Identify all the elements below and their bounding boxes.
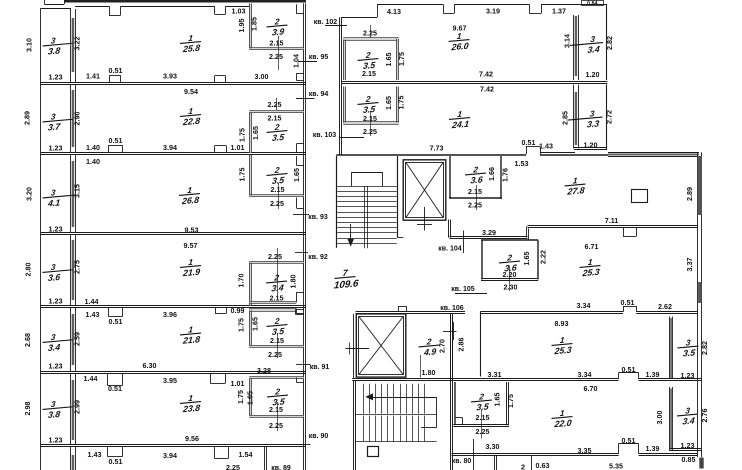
svg-text:23.8: 23.8 bbox=[182, 403, 201, 415]
svg-text:2.80: 2.80 bbox=[25, 263, 33, 277]
svg-text:7.42: 7.42 bbox=[480, 86, 494, 94]
svg-text:кв. 105: кв. 105 bbox=[451, 286, 474, 293]
svg-text:1.39: 1.39 bbox=[646, 371, 660, 379]
door notch R1-top x215 bbox=[214, 6, 216, 14]
svg-text:25.3: 25.3 bbox=[581, 267, 600, 279]
balcony-room window wall row6 bbox=[70, 374, 72, 446]
balcony top wall row1 bbox=[41, 8, 71, 10]
stair2 column bbox=[368, 447, 379, 457]
balcony-room window wall row4 bbox=[70, 235, 72, 307]
door recess kv95 bbox=[297, 73, 304, 75]
svg-text:1.23: 1.23 bbox=[49, 297, 63, 305]
bathroom 2/3.5 R5 box bbox=[249, 309, 251, 347]
wall elevator1 to 25.3 area bbox=[448, 220, 450, 238]
svg-text:2.25: 2.25 bbox=[268, 351, 282, 359]
door notch R2 x108 bbox=[108, 145, 110, 153]
svg-text:2.25: 2.25 bbox=[268, 253, 282, 261]
bath 2/3.6 kv105 labels bbox=[498, 253, 521, 274]
svg-text:1.65: 1.65 bbox=[247, 391, 255, 405]
svg-text:2.25: 2.25 bbox=[268, 101, 282, 109]
witness B2 bbox=[276, 98, 278, 110]
door recess kv91 bbox=[296, 309, 304, 311]
kv92 leader bbox=[295, 252, 308, 254]
door notch R5 x108 bbox=[108, 308, 110, 317]
svg-text:0.51: 0.51 bbox=[109, 137, 123, 145]
balcony-room window wall row3 bbox=[70, 155, 72, 233]
svg-text:2: 2 bbox=[521, 464, 525, 470]
dark wall fill right mid bbox=[698, 282, 702, 303]
row wall R5/R6 bbox=[41, 371, 306, 373]
svg-text:0.51: 0.51 bbox=[109, 67, 123, 75]
bath kv80 labels bbox=[470, 392, 493, 413]
right balcony 3.3 bottom wall bbox=[574, 147, 607, 149]
witness bath105 bbox=[509, 266, 511, 291]
door notch R7 x214 bbox=[214, 446, 216, 459]
svg-text:3.5: 3.5 bbox=[682, 347, 696, 358]
svg-text:0.51: 0.51 bbox=[522, 139, 536, 147]
svg-text:1.75: 1.75 bbox=[398, 52, 406, 66]
balcony 3.5 right label bbox=[677, 338, 700, 359]
svg-text:1.70: 1.70 bbox=[238, 274, 246, 288]
witness bath104 bbox=[476, 185, 478, 210]
svg-text:кв. 106: кв. 106 bbox=[440, 305, 463, 312]
door notch R7 x107 bbox=[107, 446, 109, 457]
dim box 0.84 bbox=[582, 1, 604, 6]
svg-text:1.65: 1.65 bbox=[385, 53, 393, 67]
svg-text:1.23: 1.23 bbox=[49, 144, 63, 152]
svg-text:26.8: 26.8 bbox=[181, 195, 200, 207]
door notch R1 x215 bbox=[214, 76, 216, 83]
corridor label 7/109.6 bbox=[331, 267, 360, 292]
svg-text:3.9: 3.9 bbox=[271, 26, 284, 37]
svg-text:1.80: 1.80 bbox=[422, 369, 436, 377]
svg-text:2.15: 2.15 bbox=[363, 115, 377, 123]
kv93 leader bbox=[293, 214, 309, 216]
svg-text:2.72: 2.72 bbox=[606, 110, 614, 124]
witness BR2 bbox=[370, 111, 372, 136]
right block row wall 26.0/24.1 bbox=[342, 81, 608, 83]
svg-text:2.15: 2.15 bbox=[270, 337, 284, 345]
room labels left block bbox=[179, 33, 202, 54]
svg-text:1.23: 1.23 bbox=[49, 73, 63, 81]
svg-text:кв. 94: кв. 94 bbox=[309, 91, 329, 98]
svg-text:2.89: 2.89 bbox=[24, 111, 32, 125]
svg-text:1.20: 1.20 bbox=[584, 142, 598, 150]
bathroom 2/3.5 R6 box bbox=[249, 378, 251, 417]
svg-text:3.94: 3.94 bbox=[163, 452, 177, 460]
right windows wall x576 bbox=[573, 15, 575, 80]
door notch 25.3-1 top bbox=[623, 228, 625, 237]
witness B6 bbox=[277, 402, 279, 431]
svg-text:1.37: 1.37 bbox=[552, 8, 566, 16]
svg-text:0.85: 0.85 bbox=[682, 456, 696, 464]
room 22.0 bottom wall bbox=[452, 453, 619, 455]
room labels right top bbox=[448, 31, 471, 52]
svg-text:3.20: 3.20 bbox=[26, 187, 34, 201]
svg-text:3.15: 3.15 bbox=[74, 184, 82, 198]
svg-text:2.68: 2.68 bbox=[24, 333, 32, 347]
svg-text:24.1: 24.1 bbox=[451, 119, 470, 131]
bathroom labels right top bbox=[357, 50, 380, 71]
svg-text:0.51: 0.51 bbox=[621, 299, 635, 307]
staircase 1 down arrow bbox=[350, 224, 352, 241]
staircase 2 left wall bbox=[353, 381, 355, 470]
balcony-room window wall row7 bbox=[70, 447, 72, 470]
top-left notch in thick wall bbox=[44, 0, 46, 4]
svg-text:1.40: 1.40 bbox=[86, 158, 100, 166]
svg-text:кв. 102: кв. 102 bbox=[314, 19, 337, 26]
svg-text:3.6: 3.6 bbox=[47, 272, 60, 283]
svg-text:7.42: 7.42 bbox=[479, 71, 493, 79]
wall below E2 / stair2 top bbox=[352, 378, 453, 380]
svg-text:1.03: 1.03 bbox=[232, 7, 246, 15]
room 27.8 bottom wall left part bbox=[450, 236, 528, 238]
svg-text:0.51: 0.51 bbox=[109, 458, 123, 466]
svg-text:2.15: 2.15 bbox=[476, 414, 490, 422]
svg-text:1.76: 1.76 bbox=[502, 168, 510, 182]
svg-text:7.73: 7.73 bbox=[430, 145, 444, 153]
svg-text:7.11: 7.11 bbox=[605, 217, 619, 225]
staircase 1 treads bbox=[337, 186, 397, 188]
svg-text:3.22: 3.22 bbox=[73, 37, 81, 51]
svg-text:0.51: 0.51 bbox=[108, 385, 122, 393]
svg-text:4.9: 4.9 bbox=[422, 346, 436, 357]
bathroom 2/3.5 R2 box bbox=[249, 112, 251, 153]
svg-text:1.20: 1.20 bbox=[586, 71, 600, 79]
svg-text:2.15: 2.15 bbox=[271, 186, 285, 194]
balcony-room window wall row1 bbox=[70, 9, 72, 83]
bath door notch kv80 bottom-left bbox=[455, 417, 463, 419]
svg-text:1.23: 1.23 bbox=[681, 442, 695, 450]
bath door notch R4 bottom-right bbox=[296, 292, 298, 302]
svg-text:27.8: 27.8 bbox=[566, 185, 585, 197]
bathroom 2/3.5 right-2 box bbox=[343, 87, 345, 124]
witness B1 bbox=[278, 36, 280, 70]
room 25.3-1 label bbox=[579, 257, 602, 278]
svg-text:1.01: 1.01 bbox=[231, 380, 245, 388]
room 25.3-2 bottom wall bbox=[453, 378, 618, 380]
right block top wall bbox=[377, 4, 443, 6]
svg-text:4.1: 4.1 bbox=[46, 197, 60, 208]
svg-text:0.51: 0.51 bbox=[622, 437, 636, 445]
svg-text:2.15: 2.15 bbox=[268, 115, 282, 123]
svg-text:0.51: 0.51 bbox=[109, 318, 123, 326]
svg-text:кв. 95: кв. 95 bbox=[309, 54, 329, 61]
svg-text:1.66: 1.66 bbox=[488, 167, 496, 181]
svg-text:6.30: 6.30 bbox=[143, 362, 157, 370]
wall stub below R7 notch bbox=[264, 446, 266, 470]
svg-text:1.39: 1.39 bbox=[646, 445, 660, 453]
svg-text:3.19: 3.19 bbox=[486, 8, 500, 16]
top notch x443 bbox=[443, 4, 445, 13]
kv90 leader bbox=[296, 444, 311, 446]
right balcony top bbox=[576, 4, 608, 6]
bathroom 2/3.5 kv80 box bbox=[454, 382, 456, 425]
svg-text:2.25: 2.25 bbox=[270, 200, 284, 208]
bath door notch R5 top-right bbox=[296, 309, 298, 314]
svg-text:1.75: 1.75 bbox=[239, 168, 247, 182]
svg-text:2.15: 2.15 bbox=[362, 70, 376, 78]
svg-text:1.54: 1.54 bbox=[239, 451, 253, 459]
svg-text:8.93: 8.93 bbox=[555, 320, 569, 328]
witness BR1 bbox=[370, 25, 372, 38]
svg-text:3.34: 3.34 bbox=[577, 302, 591, 310]
bathroom 2/3.9 R1 box bbox=[249, 4, 251, 50]
svg-text:2.62: 2.62 bbox=[658, 303, 672, 311]
svg-text:3.14: 3.14 bbox=[564, 34, 572, 48]
svg-text:25.3: 25.3 bbox=[553, 345, 572, 357]
svg-text:3.93: 3.93 bbox=[163, 73, 177, 81]
balcony-room window wall row5 bbox=[70, 308, 72, 372]
svg-text:2.82: 2.82 bbox=[606, 36, 614, 50]
svg-text:2.25: 2.25 bbox=[476, 428, 490, 436]
svg-text:кв. 89: кв. 89 bbox=[271, 465, 291, 470]
staircase 1 mid divider bbox=[364, 186, 366, 248]
room 22.0 label bbox=[551, 408, 574, 429]
svg-text:6.70: 6.70 bbox=[584, 385, 598, 393]
svg-text:1.75: 1.75 bbox=[507, 394, 515, 408]
svg-text:1.65: 1.65 bbox=[494, 393, 502, 407]
svg-text:3.10: 3.10 bbox=[26, 38, 34, 52]
kv94 leader bbox=[296, 98, 315, 100]
door notch R2 x214 bbox=[214, 146, 216, 153]
svg-text:1.44: 1.44 bbox=[85, 298, 99, 306]
corridor top wall bbox=[336, 154, 526, 156]
svg-text:1.65: 1.65 bbox=[293, 168, 301, 182]
svg-text:2.25: 2.25 bbox=[363, 30, 377, 38]
elevator shaft E1 bbox=[403, 160, 446, 220]
svg-text:1.53: 1.53 bbox=[515, 160, 529, 168]
svg-text:1.95: 1.95 bbox=[238, 19, 246, 33]
svg-text:6.71: 6.71 bbox=[585, 243, 599, 251]
svg-text:2.25: 2.25 bbox=[269, 422, 283, 430]
staircase 1 left wall bbox=[336, 156, 338, 248]
right block left wall bbox=[339, 17, 341, 155]
staircase 2 arrow bbox=[365, 393, 373, 400]
svg-text:21.9: 21.9 bbox=[182, 267, 201, 279]
balcony-room window wall row2 bbox=[70, 85, 72, 154]
svg-text:2.76: 2.76 bbox=[701, 409, 709, 423]
staircase 2 bottom line bbox=[356, 441, 437, 443]
svg-text:3.8: 3.8 bbox=[47, 409, 60, 420]
room 4.9 label bbox=[418, 337, 441, 358]
svg-text:2.15: 2.15 bbox=[270, 39, 284, 47]
balcony 3/3.4 bottom-right box bbox=[669, 387, 671, 451]
dark wall fill right bottom bbox=[699, 458, 703, 469]
bath 2/3.6 kv104 labels bbox=[464, 165, 487, 186]
door notch x618 up bbox=[618, 373, 620, 379]
svg-text:3.96: 3.96 bbox=[163, 311, 177, 319]
svg-text:3.4: 3.4 bbox=[682, 415, 695, 426]
svg-text:1.65: 1.65 bbox=[252, 126, 260, 140]
kv105 leader bbox=[455, 293, 487, 295]
svg-text:1.75: 1.75 bbox=[239, 128, 247, 142]
svg-text:1.75: 1.75 bbox=[398, 96, 406, 110]
svg-text:3.34: 3.34 bbox=[578, 371, 592, 379]
svg-text:1.40: 1.40 bbox=[86, 144, 100, 152]
room 27.8 bottom wall step bbox=[526, 226, 528, 237]
door notch 25.3-2 top x623 bbox=[623, 306, 625, 312]
svg-text:3.37: 3.37 bbox=[686, 258, 694, 272]
square column in 27.8 bbox=[632, 190, 648, 203]
room 27.8 bottom wall right part bbox=[528, 225, 698, 227]
corridor door notch x526 bbox=[526, 147, 528, 154]
svg-text:кв. 103: кв. 103 bbox=[313, 132, 336, 139]
staircase 2 right wall bbox=[450, 314, 452, 470]
svg-text:9.54: 9.54 bbox=[184, 88, 198, 96]
door notch R5 x215 bbox=[215, 308, 217, 314]
row wall R4/R5 bbox=[41, 305, 306, 307]
corridor strip wall x480 bbox=[480, 312, 482, 377]
svg-text:4.13: 4.13 bbox=[387, 8, 401, 16]
svg-text:2.90: 2.90 bbox=[74, 112, 82, 126]
svg-text:2.89: 2.89 bbox=[686, 187, 694, 201]
svg-text:109.6: 109.6 bbox=[333, 278, 359, 291]
witness line 2.25 kv80 bath bbox=[481, 410, 483, 439]
E2 center mark bbox=[346, 348, 370, 350]
room 25.3-2 label bbox=[551, 335, 574, 356]
svg-text:3.28: 3.28 bbox=[257, 367, 271, 375]
svg-text:3.31: 3.31 bbox=[488, 371, 502, 379]
bottom partial bath next row bbox=[494, 455, 532, 457]
corridor bottom wall y312-314 bbox=[356, 311, 466, 313]
svg-text:1.65: 1.65 bbox=[252, 317, 260, 331]
svg-text:1.01: 1.01 bbox=[231, 144, 245, 152]
door notch R6 x107 bbox=[107, 373, 109, 386]
kv95 leader bbox=[298, 61, 317, 63]
room 4.9 right wall bbox=[450, 315, 452, 380]
svg-text:26.0: 26.0 bbox=[450, 41, 469, 53]
kv91 leader bbox=[296, 364, 311, 366]
svg-text:1.23: 1.23 bbox=[49, 225, 63, 233]
svg-text:2.99: 2.99 bbox=[74, 400, 82, 414]
E2 door notch top bbox=[398, 306, 400, 312]
svg-text:3.94: 3.94 bbox=[163, 144, 177, 152]
svg-text:2.75: 2.75 bbox=[74, 260, 82, 274]
elevator shaft E2 bbox=[356, 314, 406, 377]
svg-text:2.22: 2.22 bbox=[540, 250, 548, 264]
balcony labels left bbox=[42, 35, 74, 57]
row wall R6/R7 bbox=[41, 444, 306, 446]
balcony 3/3.5 left wall bbox=[669, 317, 671, 380]
door recess kv93 bbox=[296, 198, 298, 209]
left block room top wall R1 bbox=[75, 6, 109, 8]
bathroom 2/3.5 R3 box bbox=[249, 155, 251, 196]
svg-text:1.75: 1.75 bbox=[237, 390, 245, 404]
svg-text:2.85: 2.85 bbox=[562, 111, 570, 125]
svg-text:3.29: 3.29 bbox=[482, 229, 496, 237]
bathroom labels left block bbox=[266, 17, 289, 38]
staircase 2 mid line bbox=[356, 414, 437, 416]
left block right outer wall bbox=[303, 3, 305, 470]
bathroom 2/3.6 kv105 box bbox=[481, 241, 483, 280]
svg-text:1.75: 1.75 bbox=[238, 318, 246, 332]
svg-text:2.86: 2.86 bbox=[458, 338, 466, 352]
door notch R6 x211 bbox=[210, 373, 212, 384]
svg-text:1.04: 1.04 bbox=[293, 54, 301, 68]
svg-text:5.35: 5.35 bbox=[609, 463, 623, 470]
svg-text:9.53: 9.53 bbox=[185, 227, 199, 235]
svg-text:22.8: 22.8 bbox=[182, 116, 201, 128]
right balcony outer wall x606 bbox=[606, 5, 608, 80]
bathroom 2/3.6 kv104 box bbox=[449, 156, 451, 199]
svg-text:1.80: 1.80 bbox=[290, 275, 298, 289]
svg-text:кв. 90: кв. 90 bbox=[309, 433, 329, 440]
svg-text:3.7: 3.7 bbox=[47, 121, 61, 132]
svg-text:25.8: 25.8 bbox=[182, 43, 201, 55]
svg-text:3.30: 3.30 bbox=[486, 443, 500, 451]
staircase 1 landing rail bbox=[351, 173, 353, 187]
svg-text:3.5: 3.5 bbox=[476, 401, 490, 412]
top wall step left bbox=[377, 4, 379, 17]
svg-text:2.15: 2.15 bbox=[468, 188, 482, 196]
svg-text:3.00: 3.00 bbox=[255, 73, 269, 81]
svg-text:3.95: 3.95 bbox=[163, 377, 177, 385]
svg-text:0.51: 0.51 bbox=[622, 366, 636, 374]
top notch x529 bbox=[529, 4, 531, 13]
balcony 3.4 top-right bbox=[569, 34, 604, 56]
kv104 leader bbox=[463, 231, 465, 254]
svg-text:3.6: 3.6 bbox=[470, 174, 483, 185]
dark wall fill right of 27.8 bbox=[698, 156, 702, 215]
bath door notch R2 bottom-right bbox=[296, 144, 298, 153]
bathroom notch top-right R1 bbox=[296, 4, 298, 14]
room 27.8 label bbox=[564, 176, 587, 197]
svg-text:1.44: 1.44 bbox=[84, 375, 98, 383]
svg-text:1.43: 1.43 bbox=[539, 143, 553, 151]
staircase 2 treads bbox=[363, 384, 365, 414]
witness line 1.80 bbox=[420, 355, 422, 378]
svg-text:3.5: 3.5 bbox=[362, 60, 376, 71]
kv103 leader bbox=[339, 137, 364, 139]
witness B4 bbox=[277, 248, 279, 300]
svg-text:кв. 80: кв. 80 bbox=[452, 458, 472, 465]
svg-text:3.4: 3.4 bbox=[587, 44, 600, 55]
svg-text:9.57: 9.57 bbox=[184, 242, 198, 250]
bath door notch R6 top-right bbox=[296, 378, 298, 383]
svg-text:кв. 104: кв. 104 bbox=[438, 246, 461, 253]
left outer wall of balconies bbox=[40, 8, 42, 470]
plan right outer wall bbox=[697, 152, 699, 457]
svg-text:2.15: 2.15 bbox=[270, 294, 284, 302]
svg-text:2.70: 2.70 bbox=[439, 339, 447, 353]
svg-text:3.3: 3.3 bbox=[586, 118, 599, 129]
balcony 3.3 bbox=[567, 109, 603, 131]
svg-text:3.5: 3.5 bbox=[362, 104, 376, 115]
bath door notch R3 top-right bbox=[296, 156, 298, 166]
svg-text:3.5: 3.5 bbox=[271, 132, 285, 143]
E2 left corridor wall bbox=[353, 314, 355, 379]
svg-text:кв. 91: кв. 91 bbox=[310, 364, 330, 371]
svg-text:3.5: 3.5 bbox=[271, 326, 285, 337]
room 25.3-2 left wall bbox=[450, 314, 452, 380]
door notch R1-top x109 bbox=[109, 6, 111, 15]
svg-text:1.65: 1.65 bbox=[523, 252, 531, 266]
svg-text:1.23: 1.23 bbox=[49, 436, 63, 444]
kv80 leader bbox=[473, 439, 475, 470]
svg-text:0.99: 0.99 bbox=[231, 307, 245, 315]
staircase 1 right wall bbox=[397, 156, 399, 238]
bathroom 2/3.4 R4 box bbox=[249, 263, 251, 306]
door notch x618 up 22.0 bbox=[618, 443, 620, 453]
svg-text:2.82: 2.82 bbox=[701, 341, 709, 355]
outer top thick wall (cropped building edge) bbox=[64, 0, 306, 3]
svg-text:2.98: 2.98 bbox=[24, 402, 32, 416]
svg-text:1.85: 1.85 bbox=[251, 17, 259, 31]
svg-text:1.65: 1.65 bbox=[385, 96, 393, 110]
svg-text:22.0: 22.0 bbox=[553, 418, 572, 430]
witness cross near kv106 bbox=[443, 331, 457, 333]
